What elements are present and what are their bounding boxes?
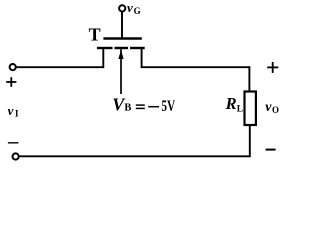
mosfet source contact segment	[97, 47, 113, 49]
label vI	[8, 103, 19, 118]
mosfet drain contact segment	[130, 47, 145, 49]
plus sign input	[6, 77, 16, 87]
minus sign input	[8, 142, 19, 144]
mosfet T gate bar	[103, 37, 141, 39]
svg-text:5V: 5V	[161, 98, 175, 115]
wire source lead down	[17, 49, 104, 68]
label vO	[265, 100, 279, 115]
label VB = -5V	[112, 94, 175, 115]
terminal input top	[10, 64, 16, 70]
label vG	[127, 0, 141, 16]
wire resistor bottom lead	[249, 126, 251, 157]
resistor RL	[245, 92, 256, 126]
wire bottom rail	[19, 155, 250, 157]
plus sign output	[267, 62, 278, 73]
svg-text:B: B	[124, 103, 131, 114]
svg-text:R: R	[225, 94, 237, 113]
svg-text:v: v	[8, 103, 14, 118]
mosfet body contact segment	[115, 47, 129, 49]
wire gate lead	[121, 12, 123, 38]
terminal vG	[119, 5, 125, 11]
label RL	[225, 94, 243, 115]
svg-text:I: I	[15, 108, 19, 118]
svg-text:O: O	[272, 105, 279, 115]
terminal input bottom	[13, 153, 19, 159]
minus sign output	[266, 149, 276, 151]
svg-text:v: v	[127, 0, 133, 15]
wire drain lead and right rail	[142, 49, 250, 91]
body arrowhead	[118, 50, 123, 59]
svg-text:T: T	[89, 25, 101, 45]
svg-text:G: G	[134, 6, 141, 16]
svg-text:L: L	[237, 105, 243, 115]
wire body lead down	[120, 49, 122, 94]
